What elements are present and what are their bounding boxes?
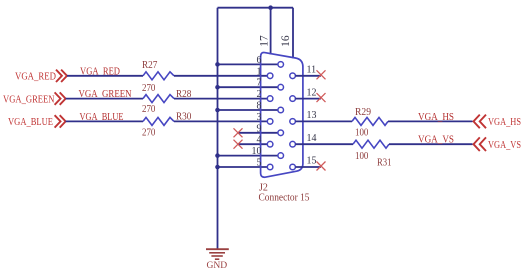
resistor R30 (142, 111, 191, 138)
wire pin3 right (174, 120, 267, 122)
svg-text:2: 2 (257, 89, 262, 100)
wire pin14 left (295, 143, 353, 145)
wire pin15 stub (295, 166, 321, 168)
port VGA_VS (474, 137, 522, 151)
svg-text:100: 100 (355, 128, 368, 139)
svg-text:Connector 15: Connector 15 (259, 192, 310, 203)
svg-text:6: 6 (257, 55, 262, 66)
svg-text:14: 14 (307, 133, 317, 144)
svg-text:1: 1 (257, 66, 262, 77)
svg-text:VGA_VS: VGA_VS (418, 134, 454, 146)
pin circle 13 (290, 119, 296, 125)
wire pin4 stub (238, 143, 267, 145)
pin circle 9 (278, 130, 284, 136)
svg-text:270: 270 (142, 104, 155, 115)
svg-text:GND: GND (207, 260, 228, 270)
svg-text:3: 3 (257, 112, 262, 123)
svg-text:16: 16 (280, 35, 292, 47)
wire top horizontal (218, 7, 294, 9)
svg-text:13: 13 (307, 110, 317, 121)
svg-text:10: 10 (252, 146, 262, 157)
wire pin13 left (295, 120, 352, 122)
pin circle 1 (267, 73, 273, 79)
no-ERC X pin12 (317, 93, 326, 102)
svg-text:VGA_VS: VGA_VS (488, 139, 521, 151)
wire pin3 left (66, 120, 143, 122)
ground symbol GND (206, 249, 229, 270)
svg-text:VGA_BLUE: VGA_BLUE (8, 116, 53, 128)
svg-text:15: 15 (307, 156, 317, 167)
svg-text:5: 5 (257, 158, 262, 169)
pin circle 10 (278, 153, 284, 159)
resistor R27 (142, 60, 174, 94)
junction pin8 (215, 108, 220, 113)
svg-text:VGA_HS: VGA_HS (418, 111, 454, 123)
junction pin5 (215, 165, 220, 170)
svg-text:R27: R27 (142, 60, 157, 71)
wire pin10 stub (218, 155, 278, 157)
port VGA_GREEN (3, 92, 66, 105)
svg-text:270: 270 (142, 127, 155, 138)
wire pin12 stub (295, 98, 321, 100)
resistor R28 (142, 89, 191, 115)
wire pin8 stub (218, 109, 278, 111)
wire pin7 stub (218, 86, 278, 88)
svg-text:100: 100 (355, 151, 368, 162)
resistor R31 (353, 140, 392, 169)
svg-text:12: 12 (307, 87, 317, 98)
resistor R29 (352, 107, 388, 138)
wire ground bus vertical (217, 8, 219, 249)
svg-text:R31: R31 (377, 158, 392, 169)
junction pin6 (215, 62, 220, 67)
wire pin2 left (66, 98, 143, 100)
pin circle 12 (290, 96, 296, 102)
svg-text:11: 11 (307, 65, 317, 76)
pin circle 15 (290, 164, 296, 170)
pin circle 8 (278, 107, 284, 113)
junction pin7 (215, 85, 220, 90)
junction pin10 (215, 153, 220, 158)
pin circle 14 (290, 141, 296, 147)
port VGA_RED (15, 70, 67, 83)
pin circle 7 (278, 84, 284, 90)
wire pin9 stub (238, 132, 278, 134)
wire pin5 stub (218, 166, 268, 168)
svg-text:17: 17 (258, 35, 270, 47)
svg-text:VGA_GREEN: VGA_GREEN (3, 93, 55, 105)
svg-text:7: 7 (257, 78, 262, 89)
wire pin16 vertical (292, 8, 294, 59)
pin circle 3 (267, 119, 273, 125)
wire pin14 right (389, 143, 473, 145)
wire pin13 right (388, 120, 473, 122)
no-ERC X pin9 (234, 128, 243, 137)
pin circle 6 (278, 62, 284, 68)
wire pin6 stub (218, 63, 278, 65)
no-ERC X pin15 (317, 162, 326, 171)
svg-text:VGA_RED: VGA_RED (15, 71, 56, 83)
pin circle 5 (267, 164, 273, 170)
svg-text:9: 9 (257, 123, 262, 134)
pin circle 11 (290, 73, 296, 79)
wire pin2 right (174, 98, 267, 100)
connector J2 outline (261, 53, 303, 178)
port VGA_BLUE (8, 115, 66, 128)
wire pin1 right (174, 75, 267, 77)
pin circle 4 (267, 141, 273, 147)
svg-text:270: 270 (142, 83, 155, 94)
svg-text:R29: R29 (355, 107, 371, 118)
wire pin11 stub (295, 75, 321, 77)
svg-text:4: 4 (257, 135, 262, 146)
wire pin1 left (67, 75, 143, 77)
svg-text:VGA_HS: VGA_HS (488, 116, 521, 128)
pin circle 2 (267, 96, 273, 102)
junction top pin17 (268, 5, 273, 10)
port VGA_HS (474, 115, 522, 129)
no-ERC X pin4 (234, 140, 243, 149)
wire pin17 vertical (270, 8, 272, 55)
svg-text:8: 8 (257, 101, 262, 112)
no-ERC X pin11 (317, 70, 326, 79)
